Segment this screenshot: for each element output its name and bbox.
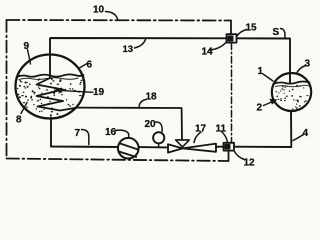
leader 13 xyxy=(135,40,146,49)
stipple liquid condenser 3 xyxy=(275,85,308,110)
leader 9 xyxy=(28,50,31,65)
leader 1 xyxy=(263,74,273,81)
enclosure wall top (dash-dot) xyxy=(7,19,232,22)
coil 19 (zigzag in vessel 8) xyxy=(37,78,78,111)
fitting 14/15 (wall feedthrough top) xyxy=(227,34,237,42)
arrow 2 xyxy=(264,101,276,106)
leader 18 xyxy=(139,100,146,109)
leader 11 xyxy=(222,132,228,143)
svg-text:4: 4 xyxy=(303,128,309,139)
gauge 20 (small circle) xyxy=(153,132,164,143)
svg-text:17: 17 xyxy=(195,124,207,135)
wire pipe from fitting 11 to valve 17 xyxy=(216,146,224,148)
svg-text:3: 3 xyxy=(305,59,311,70)
svg-text:16: 16 xyxy=(105,127,117,138)
liquid surface in vessel 8 xyxy=(17,74,84,77)
enclosure wall bottom (dash-dot) xyxy=(7,159,229,162)
svg-text:20: 20 xyxy=(145,119,157,130)
leader 20 xyxy=(156,122,163,132)
wire pipe left riser to vessel 8 bottom xyxy=(51,118,118,148)
leader 6 xyxy=(79,64,88,69)
leader 15 xyxy=(237,30,247,37)
svg-text:19: 19 xyxy=(93,87,105,98)
leader 17 xyxy=(194,132,201,143)
enclosure wall left (dash-dot) xyxy=(6,20,8,159)
svg-text:11: 11 xyxy=(216,124,227,135)
svg-text:1: 1 xyxy=(258,66,264,77)
wire pipe 18 (coil outlet to valve actuator) xyxy=(77,108,182,140)
arrow 19 xyxy=(55,90,93,92)
svg-text:14: 14 xyxy=(202,47,214,58)
wire pipe from fitting 14 to condenser 3 top xyxy=(237,38,291,83)
wire pipe 13 (vessel top to fitting 14) xyxy=(50,38,227,78)
enclosure wall right upper stub into fitting 14 xyxy=(230,21,232,35)
enclosure wall right (dash-dot) between fittings xyxy=(231,43,233,143)
leader 8 xyxy=(21,103,27,114)
leader 14 xyxy=(210,43,227,51)
wire pipe 7 (valve to pump to vessel bottom) xyxy=(139,146,168,148)
enclosure wall right lower stub into fitting 11 xyxy=(228,151,230,161)
condenser vessel 3 (sphere) xyxy=(272,73,311,111)
liquid surface in condenser xyxy=(274,82,310,84)
svg-text:S: S xyxy=(273,27,280,38)
leader 12 xyxy=(235,152,245,160)
leader 10 xyxy=(106,12,118,21)
pump 16 xyxy=(118,138,139,159)
valve 17 (bowtie with actuator) xyxy=(168,144,183,152)
svg-text:12: 12 xyxy=(244,158,256,169)
svg-text:2: 2 xyxy=(257,103,263,114)
svg-text:13: 13 xyxy=(123,44,134,55)
stipple liquid vessel 8 xyxy=(17,78,83,117)
svg-text:18: 18 xyxy=(146,92,158,103)
wire pipe 4 (condenser bottom down and left to fitting 11) xyxy=(234,111,291,147)
leader 7 xyxy=(82,130,89,145)
fitting 11/12 (wall feedthrough bottom) xyxy=(224,143,235,151)
svg-text:10: 10 xyxy=(93,5,105,16)
leader 4 xyxy=(293,135,304,141)
vessel 8 (evaporator sphere) xyxy=(16,55,85,119)
svg-text:15: 15 xyxy=(246,23,258,34)
leader 16 xyxy=(116,130,129,138)
svg-text:6: 6 xyxy=(87,60,93,71)
leader 3 xyxy=(297,66,306,74)
svg-text:8: 8 xyxy=(16,115,22,126)
svg-text:9: 9 xyxy=(24,41,30,52)
svg-text:7: 7 xyxy=(75,128,81,139)
leader S xyxy=(281,29,286,39)
